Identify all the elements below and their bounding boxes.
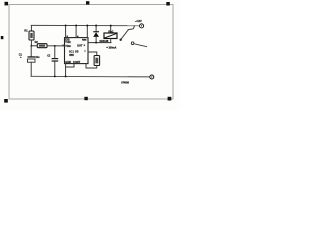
registration mark bottom-middle xyxy=(84,97,87,100)
wire IC top pin 8 xyxy=(65,25,67,37)
registration mark bottom-right xyxy=(168,97,172,101)
svg-text:THR: THR xyxy=(65,40,70,44)
terminal 0V bottom right xyxy=(150,75,154,79)
wire IC out to relay xyxy=(88,42,111,44)
svg-text:R1: R1 xyxy=(24,29,28,32)
node B junction R2/C2/IC xyxy=(54,45,56,47)
wire IC top pin 7 xyxy=(86,26,88,38)
svg-text:C2: C2 xyxy=(47,55,51,58)
label +12V arrow xyxy=(135,20,137,22)
wire IC top pin 4 xyxy=(75,25,77,37)
registration mark top-right xyxy=(166,2,170,6)
wire IC dis to R3 xyxy=(88,52,97,56)
wire gnd drop xyxy=(65,67,67,76)
registration mark left-middle xyxy=(1,36,4,39)
wire R2 to IC1 xyxy=(47,45,65,47)
terminal +12V top right xyxy=(140,24,144,28)
svg-text:555: 555 xyxy=(69,53,74,57)
svg-text:12V: 12V xyxy=(137,20,142,23)
svg-text:Re1: Re1 xyxy=(108,29,114,33)
node A junction R1/R2/C1 xyxy=(30,45,32,47)
registration mark top-middle xyxy=(86,1,89,4)
border frame xyxy=(9,5,173,100)
svg-text:GND: GND xyxy=(65,60,71,64)
registration mark top-left xyxy=(5,2,9,6)
svg-text:10u: 10u xyxy=(35,56,40,59)
relay contact switch xyxy=(120,39,122,41)
resistor R3 xyxy=(94,56,100,66)
wire IC gnd pins xyxy=(66,64,74,67)
svg-text:RES: RES xyxy=(82,39,87,41)
resistor R1 xyxy=(30,26,32,32)
resistor R2 xyxy=(31,45,37,47)
svg-text:974036: 974036 xyxy=(121,81,129,84)
capacitor C2 xyxy=(54,46,56,58)
wire R3 bottom to IC pin xyxy=(86,64,97,68)
svg-text:C1: C1 xyxy=(19,54,23,57)
wire bottom ground rail xyxy=(31,75,150,78)
diode D1 1N4148 xyxy=(95,26,97,32)
svg-text:OUT: OUT xyxy=(77,43,83,47)
svg-text:1N4148: 1N4148 xyxy=(99,39,109,43)
svg-text:= 100mA: = 100mA xyxy=(106,47,116,50)
relay coil Re1 xyxy=(110,26,112,33)
registration mark bottom-left xyxy=(4,99,8,103)
svg-text:TRG: TRG xyxy=(65,44,70,48)
contact NO terminal xyxy=(131,42,134,45)
capacitor C1 electrolytic xyxy=(30,46,32,56)
op-amp/timer IC1 555 box xyxy=(65,38,89,64)
wire top supply rail xyxy=(31,24,139,26)
